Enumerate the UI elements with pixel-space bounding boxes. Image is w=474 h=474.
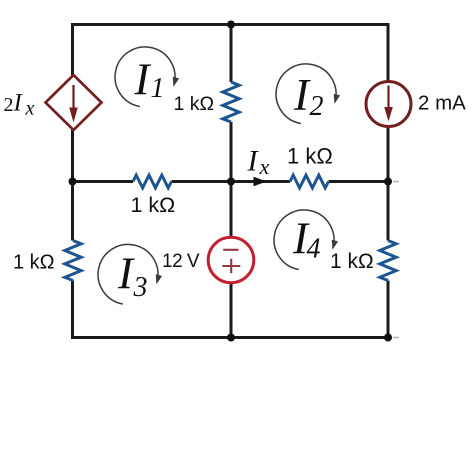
resistor R4 1 kOhm (bottom left vertical) <box>65 241 81 281</box>
svg-text:I: I <box>134 55 152 105</box>
resistor R5 1 kOhm (bottom right vertical) <box>380 241 396 281</box>
node top middle <box>227 21 235 29</box>
tick at bottom right node <box>393 337 399 339</box>
node bottom right <box>384 334 392 342</box>
label I2 <box>293 70 324 122</box>
label 2Ix <box>4 90 35 120</box>
svg-text:1 kΩ: 1 kΩ <box>287 144 333 169</box>
mesh current I2 arrow <box>276 64 340 124</box>
resistor R3 1 kOhm (middle right horizontal) <box>290 175 329 188</box>
current source 2 mA <box>366 82 411 127</box>
wire middle vertical upper <box>230 25 233 83</box>
svg-text:2: 2 <box>310 91 324 122</box>
resistor R2 1 kOhm (middle left horizontal) <box>133 175 172 188</box>
svg-text:2 mA: 2 mA <box>418 92 466 115</box>
svg-text:3: 3 <box>133 272 148 303</box>
wire bottom horizontal <box>71 336 390 339</box>
svg-text:1 kΩ: 1 kΩ <box>174 93 215 115</box>
current Ix arrow <box>254 177 267 187</box>
svg-text:I: I <box>117 249 135 299</box>
wire top horizontal <box>71 23 390 26</box>
wire left vertical lower <box>71 281 74 338</box>
node middle left <box>69 178 77 186</box>
label I4 <box>292 214 321 265</box>
wire left vertical middle <box>71 128 74 241</box>
wire right vertical middle <box>387 182 390 241</box>
node center <box>227 178 235 186</box>
mesh current I3 arrow <box>98 244 162 304</box>
svg-text:x: x <box>25 98 35 120</box>
node bottom middle <box>227 334 235 342</box>
svg-text:I: I <box>293 70 311 120</box>
label I3 <box>117 249 148 304</box>
wire middle horizontal right segment <box>329 180 389 183</box>
node middle right <box>384 178 392 186</box>
wire right vertical lower <box>387 281 390 338</box>
svg-text:x: x <box>259 154 270 179</box>
resistor R1 1 kOhm (top middle vertical) <box>223 82 239 122</box>
dependent current source 2Ix <box>46 75 102 130</box>
svg-text:2: 2 <box>4 94 14 116</box>
tick at middle right node <box>393 181 399 183</box>
wire middle horizontal left segment <box>73 180 134 183</box>
svg-text:1 kΩ: 1 kΩ <box>13 252 55 274</box>
mesh current I4 arrow <box>274 210 338 270</box>
svg-text:4: 4 <box>307 234 321 265</box>
svg-text:1: 1 <box>151 73 165 104</box>
svg-text:1 kΩ: 1 kΩ <box>131 193 176 217</box>
svg-text:1 kΩ: 1 kΩ <box>330 250 374 273</box>
label I1 <box>134 55 165 105</box>
voltage source 12 V <box>208 237 254 283</box>
wire left vertical upper <box>71 25 74 78</box>
wire middle vertical lower <box>230 122 233 338</box>
svg-text:12 V: 12 V <box>162 251 200 272</box>
wire right vertical upper <box>387 25 390 182</box>
mesh current I1 arrow <box>115 47 179 107</box>
wire middle horizontal center segment <box>172 180 291 183</box>
label Ix <box>247 145 270 180</box>
